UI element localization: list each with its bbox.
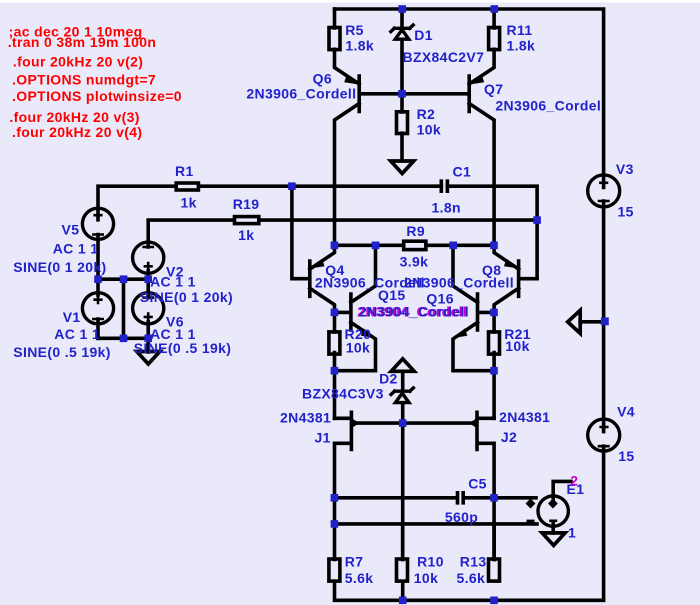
svg-text:J2: J2 — [501, 429, 517, 445]
svg-text:R10: R10 — [417, 554, 444, 570]
svg-text:.OPTIONS plotwinsize=0: .OPTIONS plotwinsize=0 — [12, 88, 182, 104]
svg-text:D2: D2 — [379, 371, 398, 387]
svg-text:R1: R1 — [175, 163, 194, 179]
svg-text:.four 20kHz 20 v(3): .four 20kHz 20 v(3) — [9, 109, 139, 125]
svg-text:1: 1 — [568, 525, 576, 541]
svg-text:1k: 1k — [238, 227, 254, 243]
svg-text:5.6k: 5.6k — [345, 570, 374, 586]
svg-text:10k: 10k — [505, 338, 529, 354]
svg-text:2N4381: 2N4381 — [499, 409, 550, 425]
svg-text:R13: R13 — [460, 554, 487, 570]
svg-text:C5: C5 — [468, 476, 487, 492]
svg-text:.tran 0 38m 19m 100n: .tran 0 38m 19m 100n — [8, 34, 157, 50]
svg-text:V1: V1 — [63, 309, 81, 325]
svg-text:J1: J1 — [315, 429, 331, 445]
svg-text:SINE(0 1 20k): SINE(0 1 20k) — [13, 259, 106, 275]
svg-text:3.9k: 3.9k — [400, 253, 429, 269]
svg-text:2N3906_Cordell: 2N3906_Cordell — [246, 86, 356, 102]
svg-text:SINE(0 1 20k): SINE(0 1 20k) — [140, 289, 233, 305]
svg-text:2N3906_Cordel: 2N3906_Cordel — [495, 98, 601, 114]
svg-text:V5: V5 — [62, 221, 80, 237]
svg-text:2: 2 — [570, 473, 578, 489]
svg-text:Q7: Q7 — [484, 81, 503, 97]
svg-text:BZX84C2V7: BZX84C2V7 — [403, 49, 485, 65]
svg-text:V4: V4 — [617, 404, 635, 420]
svg-text:R9: R9 — [406, 223, 425, 239]
svg-text:.four 20kHz 20 v(2): .four 20kHz 20 v(2) — [13, 54, 143, 70]
svg-text:15: 15 — [618, 203, 634, 219]
svg-text:560p: 560p — [445, 509, 478, 525]
svg-text:C1: C1 — [453, 164, 472, 180]
svg-text:10k: 10k — [417, 121, 441, 137]
svg-text:.four 20kHz 20 v(4): .four 20kHz 20 v(4) — [12, 124, 142, 140]
svg-text:15: 15 — [618, 448, 634, 464]
svg-text:SINE(0 .5 19k): SINE(0 .5 19k) — [134, 340, 232, 356]
svg-text:AC 1 1: AC 1 1 — [53, 240, 99, 256]
svg-text:SINE(0 .5 19k): SINE(0 .5 19k) — [13, 344, 111, 360]
svg-text:2N3904_Cordell: 2N3904_Cordell — [359, 303, 469, 319]
svg-text:Q15: Q15 — [378, 287, 406, 303]
svg-text:2N4381: 2N4381 — [280, 410, 331, 426]
svg-text:1.8k: 1.8k — [507, 38, 536, 54]
svg-text:R5: R5 — [345, 22, 364, 38]
svg-text:R7: R7 — [345, 554, 364, 570]
svg-text:5.6k: 5.6k — [457, 570, 486, 586]
svg-text:10k: 10k — [414, 570, 438, 586]
svg-text:BZX84C3V3: BZX84C3V3 — [302, 386, 384, 402]
svg-text:V3: V3 — [616, 161, 634, 177]
svg-text:Q6: Q6 — [313, 71, 332, 87]
svg-text:2N3906_Cordell: 2N3906_Cordell — [404, 275, 514, 291]
svg-text:AC 1 1: AC 1 1 — [54, 326, 100, 342]
svg-text:1.8k: 1.8k — [345, 38, 374, 54]
svg-text:AC 1 1: AC 1 1 — [150, 274, 196, 290]
svg-text:1k: 1k — [181, 194, 197, 210]
svg-text:1.8n: 1.8n — [432, 200, 461, 216]
svg-text:.OPTIONS numdgt=7: .OPTIONS numdgt=7 — [12, 72, 156, 88]
svg-text:10k: 10k — [346, 339, 370, 355]
svg-text:R19: R19 — [233, 196, 260, 212]
svg-text:R2: R2 — [417, 106, 436, 122]
svg-text:R11: R11 — [507, 22, 533, 38]
svg-text:D1: D1 — [414, 27, 433, 43]
